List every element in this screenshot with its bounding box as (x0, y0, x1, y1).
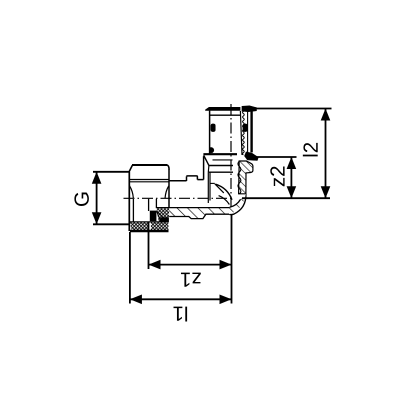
l1 dimension (130, 215, 232, 304)
vertical tube wall section below flange (hatched) (238, 161, 253, 194)
G dimension (93, 172, 130, 225)
o-ring left black (211, 124, 215, 132)
label l1 (174, 307, 188, 322)
nut thread section hatched band (130, 222, 169, 231)
nut face chamfer arcs (130, 186, 134, 199)
elbow corner arcs (229, 194, 246, 215)
neck and body profile upper half (169, 156, 204, 181)
press skirt (flange) (203, 154, 237, 204)
centerline horizontal (124, 197, 234, 199)
tailpipe lower wall hatched band (157, 208, 231, 219)
nut facet double line (129, 179, 169, 181)
z2 dimension (251, 157, 297, 198)
nut body outline (129, 165, 169, 231)
label G (74, 193, 89, 206)
bottom flange black flare (245, 152, 259, 160)
l2 dimension (252, 109, 332, 199)
press sleeve upper left (view) (206, 107, 241, 155)
male thread section wedge right of gasket (156, 208, 169, 220)
centerline vertical (230, 104, 232, 207)
shared bottom extension line (z2/l2) (242, 197, 330, 199)
lower bore vertical double lines (133, 199, 156, 222)
label z2 (270, 167, 284, 187)
label z1 (181, 273, 201, 287)
elbow corner hatch crescent (229, 194, 246, 214)
label l2 (303, 143, 318, 157)
press indicator dark mark (209, 147, 214, 152)
z1 dimension (149, 222, 232, 269)
press sleeve right (section) (240, 106, 258, 160)
gasket black (150, 211, 157, 222)
